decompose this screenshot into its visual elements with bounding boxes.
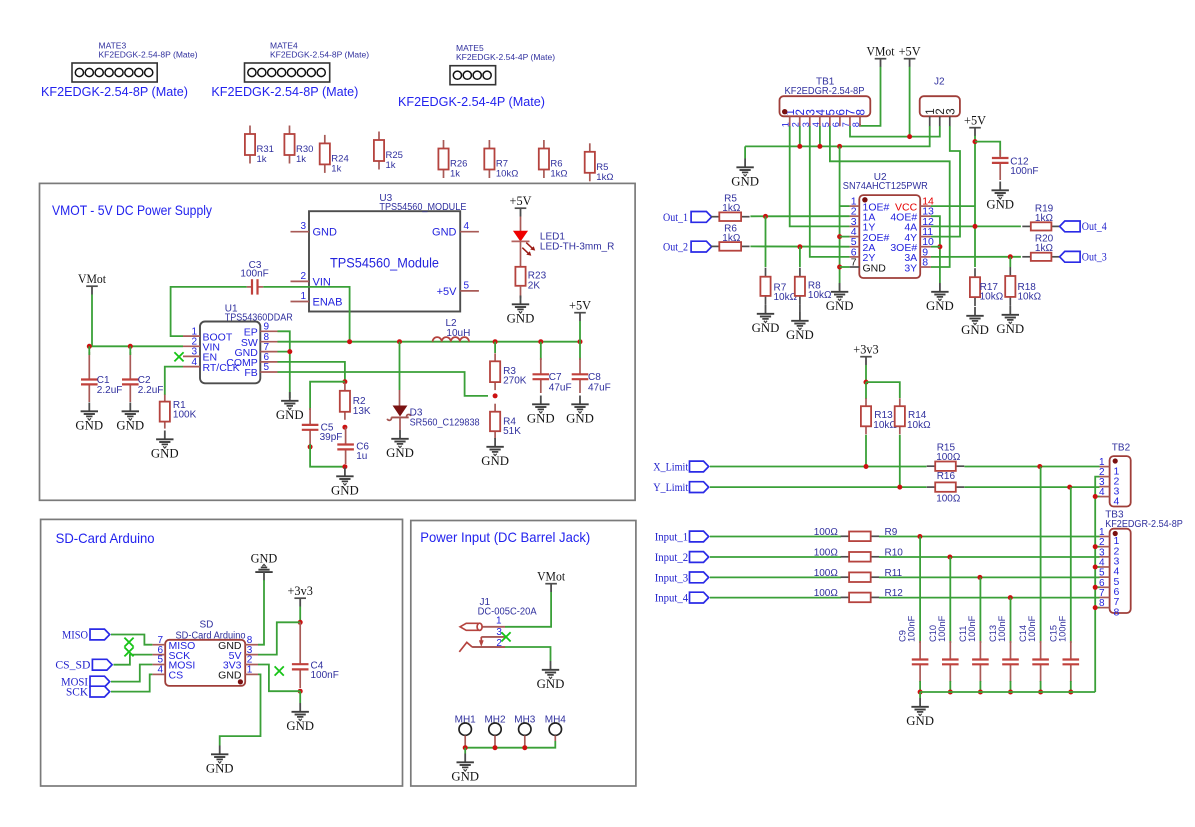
svg-text:2.2uF: 2.2uF bbox=[97, 385, 123, 396]
svg-text:GND: GND bbox=[566, 412, 594, 426]
svg-text:100nF: 100nF bbox=[997, 615, 1007, 642]
wire C9 to gnd rail bbox=[919, 681, 921, 692]
resistor R23 2K bbox=[515, 241, 546, 298]
svg-text:10kΩ: 10kΩ bbox=[496, 169, 518, 180]
junction 4A/+5V-vert bbox=[973, 224, 978, 229]
junction C13 gnd bbox=[1008, 690, 1013, 695]
svg-text:GND: GND bbox=[75, 419, 103, 433]
svg-text:3Y: 3Y bbox=[904, 262, 917, 274]
wire Input_2 to R10 bbox=[710, 556, 841, 558]
resistor R14 10kOhm bbox=[895, 398, 931, 434]
svg-text:51K: 51K bbox=[503, 426, 521, 437]
wire C15 to gnd rail bbox=[1070, 681, 1072, 692]
connector TB3 KF2EDGR-2.54-8P bbox=[1099, 509, 1183, 618]
svg-text:3: 3 bbox=[300, 221, 306, 232]
junction C4 bottom bbox=[298, 689, 303, 694]
svg-text:8: 8 bbox=[855, 109, 867, 115]
resistor R25 (spare row) bbox=[374, 132, 403, 172]
svg-text:1k: 1k bbox=[296, 154, 306, 165]
svg-text:VMOT - 5V DC Power Supply: VMOT - 5V DC Power Supply bbox=[52, 203, 212, 218]
wire R16 to TB2 pin3 bbox=[964, 486, 1099, 488]
resistor R2 13K bbox=[340, 383, 371, 420]
ground under U2 right bbox=[926, 283, 954, 313]
svg-text:1u: 1u bbox=[356, 451, 367, 462]
capacitor C8 47uF bbox=[572, 342, 611, 394]
junction R3/R4/FB bbox=[493, 393, 498, 398]
svg-text:100Ω: 100Ω bbox=[814, 527, 839, 538]
power flag VMot (right) bbox=[867, 45, 896, 68]
wire J1 pin2 to GND bbox=[505, 647, 551, 661]
junction Y row / C15 drop bbox=[1067, 485, 1072, 490]
resistor R31 (spare row) bbox=[245, 126, 274, 166]
junction U3-VIN drop bbox=[347, 339, 352, 344]
svg-text:2: 2 bbox=[496, 638, 502, 649]
wire R6 to U2 2A bbox=[750, 245, 849, 247]
diode D3 SR560_C129838 (schottky) bbox=[387, 406, 480, 430]
wire +5V down bbox=[909, 67, 911, 137]
svg-text:Input_1: Input_1 bbox=[655, 532, 689, 544]
wire 4OE#/3OE# gnd drop bbox=[931, 216, 940, 283]
ground above SD pin8 bbox=[251, 551, 278, 580]
wire TB1 pin4 stub bbox=[819, 126, 821, 146]
net flag Out_3 bbox=[1060, 251, 1107, 263]
wire C11 drop bbox=[979, 577, 981, 643]
svg-text:MISO: MISO bbox=[62, 629, 88, 641]
junction C9 gnd bbox=[918, 690, 923, 695]
svg-text:100nF: 100nF bbox=[240, 268, 268, 279]
resistor R5 (spare row) bbox=[585, 143, 614, 183]
ic U1 TPS54360DDAR bbox=[183, 303, 293, 383]
resistor R7 (spare row) bbox=[484, 140, 518, 180]
wire TB2 pin2 to gnd vertical bbox=[1095, 477, 1099, 692]
svg-text:Input_4: Input_4 bbox=[655, 593, 689, 605]
svg-text:10uH: 10uH bbox=[446, 328, 470, 339]
net flag Input_3 bbox=[655, 572, 709, 584]
svg-text:KF2EDGK-2.54-8P (Mate): KF2EDGK-2.54-8P (Mate) bbox=[211, 84, 358, 99]
svg-text:KF2EDGR-2.54-8P: KF2EDGR-2.54-8P bbox=[1105, 519, 1183, 530]
capacitor C14 100nF bbox=[1018, 615, 1049, 682]
svg-text:8: 8 bbox=[922, 257, 928, 269]
resistor R15 100Ohm bbox=[927, 443, 965, 471]
wire TB1 gnd rail (pins 2,4,6 / J2 pin1) bbox=[745, 126, 930, 146]
net flag Input_2 bbox=[655, 552, 709, 564]
net flag MISO bbox=[62, 629, 110, 641]
SD pins right bbox=[218, 635, 258, 682]
svg-text:4: 4 bbox=[1099, 487, 1105, 498]
svg-text:SCK: SCK bbox=[66, 687, 89, 699]
wire C5 bottom loop to C6 bottom bbox=[310, 444, 345, 467]
svg-text:GND: GND bbox=[996, 322, 1024, 336]
junction C5 bottom bbox=[308, 444, 313, 449]
wire 2OE# link bbox=[840, 236, 850, 238]
svg-text:100Ω: 100Ω bbox=[936, 494, 961, 505]
junction R5/R7 bbox=[763, 214, 768, 219]
TB3 pin1 marker dot bbox=[1113, 531, 1118, 536]
wire +5V link TB1 pin7 to J2 pin2 bbox=[850, 126, 940, 137]
wire SD pin8 to GND above bbox=[258, 580, 264, 645]
junction 2OE# bbox=[837, 234, 842, 239]
svg-text:Out_3: Out_3 bbox=[1082, 252, 1107, 264]
wire CS_SD to SD pin6 bbox=[114, 655, 153, 665]
ic U2 SN74AHCT125PWR bbox=[843, 172, 934, 278]
U2 pin1 marker dot bbox=[862, 197, 867, 202]
resistor R13 10kOhm bbox=[861, 382, 898, 434]
junction C10 gnd bbox=[948, 690, 953, 695]
svg-text:GND: GND bbox=[251, 551, 278, 565]
svg-text:GND: GND bbox=[276, 408, 304, 422]
ground under R7 bbox=[752, 305, 780, 335]
wire TB2 pin4 link bbox=[1095, 496, 1099, 498]
junction R2 bottom bbox=[342, 425, 347, 430]
net flag SCK bbox=[66, 686, 110, 698]
svg-text:J2: J2 bbox=[934, 77, 945, 88]
svg-text:1: 1 bbox=[247, 665, 253, 676]
ground under R1 bbox=[151, 431, 179, 461]
junction R14/Y row bbox=[897, 485, 902, 490]
wire pin7 GND down bbox=[278, 352, 290, 398]
capacitor C1 2.2uF bbox=[81, 346, 122, 402]
resistor R4 51K bbox=[490, 404, 521, 440]
junction R3 bbox=[493, 339, 498, 344]
svg-text:+5V: +5V bbox=[510, 194, 532, 208]
LED LED1 LED-TH-3mm_R bbox=[512, 217, 615, 256]
wire Input_3 to R11 bbox=[710, 576, 841, 578]
junction +3v3 split bbox=[864, 380, 869, 385]
svg-text:CS_SD: CS_SD bbox=[55, 660, 90, 672]
net flag Input_4 bbox=[655, 592, 709, 604]
svg-text:+5V: +5V bbox=[899, 45, 921, 59]
resistor R6 (spare row) bbox=[539, 140, 568, 180]
svg-text:4: 4 bbox=[464, 221, 470, 232]
svg-text:GND: GND bbox=[116, 419, 144, 433]
svg-text:100Ω: 100Ω bbox=[814, 548, 839, 559]
ground under caps rail bbox=[906, 698, 934, 728]
svg-text:10kΩ: 10kΩ bbox=[1018, 292, 1042, 303]
svg-text:100nF: 100nF bbox=[967, 615, 977, 642]
ground under R23 bbox=[507, 296, 535, 326]
junction VMot/C1 bbox=[87, 344, 92, 349]
capacitor C3 100nF bbox=[240, 260, 268, 295]
svg-text:100nF: 100nF bbox=[1010, 166, 1038, 177]
wire U1 BOOT to C3 bbox=[171, 287, 247, 336]
svg-text:VMot: VMot bbox=[867, 45, 896, 59]
svg-text:FB: FB bbox=[244, 367, 257, 379]
junction 3A/R18 bbox=[1008, 254, 1013, 259]
svg-text:LED-TH-3mm_R: LED-TH-3mm_R bbox=[540, 241, 614, 252]
wire SCK to SD pin4 bbox=[111, 674, 152, 691]
resistor R7 10kOhm bbox=[760, 268, 797, 305]
junction +5V node bbox=[907, 134, 912, 139]
resistor R26 (spare row) bbox=[438, 140, 467, 180]
power flag +5V (near C12) bbox=[964, 114, 986, 137]
ground under C1 bbox=[75, 403, 103, 433]
wire TB3 pin6 link bbox=[1095, 586, 1099, 588]
svg-text:39pF: 39pF bbox=[320, 432, 343, 443]
ground under R18 bbox=[996, 306, 1024, 336]
wire 4A row to R19 bbox=[931, 225, 1021, 227]
capacitor C13 100nF bbox=[988, 615, 1019, 682]
svg-text:KF2EDGR-2.54-8P: KF2EDGR-2.54-8P bbox=[785, 86, 865, 97]
resistor R10 100Ohm bbox=[814, 548, 904, 562]
no-connect X near C4 bbox=[275, 666, 284, 675]
junction TB3 pin6 bbox=[1093, 585, 1098, 590]
wire C14 to gnd rail bbox=[1040, 681, 1042, 692]
svg-text:Y_Limit: Y_Limit bbox=[653, 482, 689, 494]
svg-text:TPS54560_Module: TPS54560_Module bbox=[330, 256, 439, 271]
junction D3 bbox=[397, 339, 402, 344]
svg-text:GND: GND bbox=[786, 328, 814, 342]
ground under U1 pin7 bbox=[276, 392, 304, 422]
resistor R18 10kOhm bbox=[1005, 267, 1041, 306]
inductor L2 10uH bbox=[433, 318, 471, 342]
wire U2 OE gnd rail (left) bbox=[839, 146, 841, 290]
power flag +3v3 (SD) bbox=[288, 584, 313, 607]
wire gnd rail stub bbox=[919, 692, 921, 698]
svg-text:Out_1: Out_1 bbox=[663, 212, 688, 224]
svg-text:TPS54560_MODULE: TPS54560_MODULE bbox=[379, 202, 466, 213]
wire SD pin3 to +3v3 node bbox=[258, 622, 300, 654]
svg-text:GND: GND bbox=[986, 198, 1014, 212]
resistor R6 1kOhm bbox=[711, 224, 750, 251]
svg-text:GND: GND bbox=[286, 719, 314, 733]
svg-text:+5V: +5V bbox=[569, 299, 591, 313]
svg-text:GND: GND bbox=[527, 412, 555, 426]
svg-text:KF2EDGK-2.54-8P (Mate): KF2EDGK-2.54-8P (Mate) bbox=[99, 50, 198, 60]
junction C7 bbox=[538, 339, 543, 344]
ground under D3 bbox=[386, 430, 414, 460]
connector J1 DC-005C-20A barrel jack bbox=[459, 597, 537, 652]
svg-text:GND: GND bbox=[752, 321, 780, 335]
svg-text:SR560_C129838: SR560_C129838 bbox=[410, 417, 480, 428]
resistor R1 100K bbox=[160, 395, 197, 429]
net flag Out_1 bbox=[663, 212, 712, 224]
ground under C8 bbox=[566, 396, 594, 426]
power flag +5V (rail right) bbox=[569, 299, 591, 322]
svg-text:GND: GND bbox=[961, 323, 989, 337]
wire C10 to gnd rail bbox=[949, 681, 951, 692]
capacitor C4 100nF bbox=[292, 622, 339, 688]
ground under R8 bbox=[799, 305, 801, 312]
ground under MH rail bbox=[451, 754, 479, 784]
svg-text:X_Limit: X_Limit bbox=[653, 461, 689, 473]
wire VCC link bbox=[931, 205, 975, 207]
net flag X_Limit bbox=[653, 461, 709, 473]
svg-text:100nF: 100nF bbox=[907, 615, 917, 642]
wire R6 node down to R8 bbox=[799, 247, 801, 267]
svg-text:1k: 1k bbox=[331, 163, 341, 174]
resistor R19 1kOhm bbox=[1022, 204, 1060, 231]
resistor R16 100Ohm bbox=[927, 471, 965, 504]
svg-text:SN74AHCT125PWR: SN74AHCT125PWR bbox=[843, 180, 928, 192]
junction C2 bbox=[128, 344, 133, 349]
svg-text:8: 8 bbox=[851, 122, 861, 127]
junction TB1 pin4 bbox=[817, 144, 822, 149]
wire R5 to U2 1A bbox=[750, 215, 849, 217]
capacitor C11 100nF bbox=[958, 615, 989, 682]
wire C10 drop bbox=[949, 557, 951, 643]
svg-text:KF2EDGK-2.54-4P (Mate): KF2EDGK-2.54-4P (Mate) bbox=[398, 94, 545, 109]
svg-text:GND: GND bbox=[386, 446, 414, 460]
wire J2 pin3 to U2 4Y bbox=[931, 126, 960, 237]
resistor R24 (spare row) bbox=[320, 135, 349, 175]
svg-text:1k: 1k bbox=[450, 169, 460, 180]
junction TB3 pin2 bbox=[1093, 544, 1098, 549]
ground under R17 bbox=[961, 307, 989, 337]
resistor R9 100Ohm bbox=[814, 527, 898, 541]
wire TB1 pin3 to U2 2Y bbox=[810, 126, 850, 257]
svg-text:1: 1 bbox=[496, 616, 502, 627]
wire COMP to R2 bbox=[278, 362, 345, 382]
capacitor C10 100nF bbox=[928, 615, 959, 682]
ground under C12 bbox=[986, 182, 1014, 212]
connector J2 bbox=[920, 77, 960, 127]
wire TB3 pin8 link bbox=[1095, 607, 1099, 609]
wire VMot to J1 pin1 bbox=[505, 592, 551, 627]
wire R2-node to C5 bbox=[310, 382, 345, 410]
junction R10/C10 bbox=[947, 555, 952, 560]
svg-text:47uF: 47uF bbox=[588, 382, 611, 393]
net flag Out_4 bbox=[1060, 221, 1107, 233]
wire C13 to gnd rail bbox=[1010, 681, 1012, 692]
SD pin1 marker dot bbox=[238, 679, 243, 684]
svg-text:7: 7 bbox=[851, 257, 857, 269]
wire mounting hole gnd rail bbox=[465, 741, 555, 748]
svg-text:47uF: 47uF bbox=[549, 382, 572, 393]
svg-text:GND: GND bbox=[481, 454, 509, 468]
svg-text:GND: GND bbox=[863, 262, 887, 274]
wire rail to D3 bbox=[399, 342, 401, 390]
capacitor C9 100nF bbox=[898, 615, 929, 682]
wire R11 to TB3 bbox=[879, 576, 1100, 578]
power flag +5V (LED branch) bbox=[510, 194, 532, 217]
wire input rail to U1 VIN bbox=[89, 345, 183, 347]
wire R9 to TB3 bbox=[879, 536, 1100, 538]
connector MATE4 bbox=[211, 41, 369, 100]
wire Input_4 to R12 bbox=[710, 597, 841, 599]
junction TB2 pin4 bbox=[1093, 494, 1098, 499]
no-connect X on U1 EN bbox=[174, 352, 183, 361]
ground under C2 bbox=[116, 403, 144, 433]
svg-text:TPS54360DDAR: TPS54360DDAR bbox=[225, 312, 293, 323]
svg-text:R16: R16 bbox=[937, 471, 956, 482]
svg-text:13K: 13K bbox=[353, 406, 371, 417]
wire U2 pin7 link bbox=[840, 266, 850, 268]
wire X_Limit to R15 bbox=[710, 466, 927, 468]
svg-text:GND: GND bbox=[451, 770, 479, 784]
power flag +3v3 (right) bbox=[853, 343, 878, 366]
power flag +5V (right top) bbox=[899, 45, 921, 68]
svg-text:4: 4 bbox=[157, 665, 163, 676]
svg-text:Power Input (DC Barrel Jack): Power Input (DC Barrel Jack) bbox=[420, 530, 590, 545]
connector TB2 bbox=[1099, 443, 1131, 508]
wire Input_1 to R9 bbox=[710, 536, 841, 538]
wire EP to GND net bbox=[278, 331, 290, 351]
SD pins left bbox=[152, 635, 195, 682]
junction +3v3/C4 bbox=[298, 620, 303, 625]
wire TB3 pin4 link bbox=[1095, 566, 1099, 568]
junction R11/C11 bbox=[977, 575, 982, 580]
svg-text:GND: GND bbox=[926, 299, 954, 313]
resistor R11 100Ohm bbox=[814, 568, 903, 582]
wire TB1 pin2 stub bbox=[799, 126, 801, 146]
wire R13 to X_Limit row bbox=[865, 435, 867, 467]
junction C8/+5V bbox=[578, 339, 583, 344]
wire FB to R3/R4 node bbox=[278, 372, 489, 396]
net flag CS_SD bbox=[55, 659, 112, 671]
svg-text:2.2uF: 2.2uF bbox=[138, 385, 164, 396]
wire 1OE# link bbox=[840, 205, 850, 207]
svg-text:+3v3: +3v3 bbox=[288, 584, 313, 598]
svg-text:10kΩ: 10kΩ bbox=[980, 292, 1004, 303]
svg-text:100nF: 100nF bbox=[311, 670, 339, 681]
connector MATE3 bbox=[41, 41, 198, 100]
svg-text:10kΩ: 10kΩ bbox=[907, 420, 931, 431]
wire SD pin2 to C4 bottom bbox=[258, 665, 300, 692]
wire C13 drop bbox=[1010, 598, 1012, 643]
svg-text:2: 2 bbox=[300, 271, 306, 282]
wire SD pin1 to lower GND bbox=[220, 674, 261, 745]
junction C15 gnd bbox=[1068, 690, 1073, 695]
mounting hole MH4 bbox=[545, 715, 567, 742]
svg-text:GND: GND bbox=[151, 447, 179, 461]
capacitor C6 1u bbox=[337, 427, 369, 464]
svg-text:1kΩ: 1kΩ bbox=[722, 233, 741, 244]
svg-text:Out_4: Out_4 bbox=[1082, 221, 1107, 233]
resistor R12 100Ohm bbox=[814, 588, 904, 602]
ground under C6 bbox=[331, 468, 359, 498]
svg-text:SD: SD bbox=[200, 619, 214, 630]
connector MATE5 bbox=[398, 43, 555, 109]
ground under SD pin1 wire bbox=[206, 746, 234, 776]
wire gnd rail drop bbox=[744, 146, 746, 158]
capacitor C7 47uF bbox=[533, 342, 572, 394]
svg-text:+5V: +5V bbox=[437, 286, 458, 298]
junction R6/R8 bbox=[797, 244, 802, 249]
svg-text:100nF: 100nF bbox=[1057, 615, 1067, 642]
junction U2 pin7 gnd bbox=[837, 265, 842, 270]
svg-text:1kΩ: 1kΩ bbox=[550, 169, 567, 180]
svg-text:GND: GND bbox=[906, 714, 934, 728]
module U3 TPS54560_MODULE bbox=[291, 193, 479, 312]
svg-text:SD-Card Arduino: SD-Card Arduino bbox=[56, 531, 155, 546]
svg-text:100nF: 100nF bbox=[1027, 615, 1037, 642]
wire R5 node down to R7 bbox=[765, 216, 767, 267]
capacitor C15 100nF bbox=[1048, 615, 1079, 682]
svg-text:GND: GND bbox=[507, 312, 535, 326]
svg-text:1kΩ: 1kΩ bbox=[722, 203, 741, 214]
ground under U2 left bbox=[826, 283, 854, 313]
junction TB1 pin2 bbox=[797, 144, 802, 149]
net flag Out_2 bbox=[663, 241, 712, 253]
svg-text:CS: CS bbox=[169, 670, 184, 682]
wire R18 drop bbox=[1009, 257, 1011, 267]
svg-text:8: 8 bbox=[1114, 606, 1120, 618]
wire +3v3 down bbox=[865, 365, 867, 382]
junction TB3 pin8 bbox=[1093, 605, 1098, 610]
wire 3OE# link bbox=[931, 246, 940, 248]
svg-text:270K: 270K bbox=[503, 375, 527, 386]
wire +5V down to VCC and R17 bbox=[974, 136, 976, 267]
svg-text:VMot: VMot bbox=[537, 570, 566, 584]
junction MH3 bbox=[522, 745, 527, 750]
svg-text:1k: 1k bbox=[386, 160, 396, 171]
mounting hole MH2 bbox=[484, 715, 506, 748]
svg-text:Out_2: Out_2 bbox=[663, 242, 688, 254]
junction EP/GND bbox=[287, 349, 292, 354]
wire R12 to TB3 bbox=[879, 597, 1100, 599]
svg-text:GND: GND bbox=[206, 762, 234, 776]
wire 3A row to R20 bbox=[931, 256, 1021, 258]
